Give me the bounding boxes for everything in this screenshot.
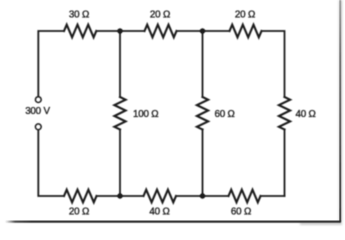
- wire top-left segment: [38, 31, 64, 96]
- wire top between R1 and node A: [96, 30, 144, 32]
- wire bottom-left segment: [38, 130, 64, 196]
- wire top-right corner down: [262, 31, 285, 97]
- resistor R6 40 ohm: [279, 97, 290, 130]
- resistor R9 60 ohm: [229, 190, 261, 203]
- wire bottom-right corner: [261, 195, 285, 197]
- wire bottom between R8 and node D: [176, 195, 229, 197]
- source terminal bottom: [35, 124, 41, 130]
- resistor R2 20 ohm: [145, 25, 177, 38]
- svg-text:20 Ω: 20 Ω: [150, 10, 170, 21]
- wire node A lower: [119, 130, 121, 197]
- node D junction dot: [200, 193, 205, 198]
- node A junction dot: [117, 28, 122, 33]
- wire top between R2 and node B: [177, 30, 230, 32]
- resistor R5 60 ohm: [197, 97, 208, 130]
- svg-text:20 Ω: 20 Ω: [69, 206, 89, 217]
- resistor R8 40 ohm: [144, 190, 177, 203]
- wire bottom between R7 and node C: [97, 195, 144, 197]
- svg-text:60 Ω: 60 Ω: [215, 109, 235, 120]
- resistor R1 30 ohm: [64, 25, 96, 38]
- svg-text:20 Ω: 20 Ω: [235, 10, 255, 21]
- resistor R7 20 ohm: [64, 190, 97, 203]
- svg-text:40 Ω: 40 Ω: [296, 109, 316, 120]
- resistor R4 100 ohm: [114, 97, 125, 130]
- wire node B lower: [202, 130, 204, 197]
- svg-text:300 V: 300 V: [25, 106, 50, 117]
- svg-text:40 Ω: 40 Ω: [149, 206, 169, 217]
- node B junction dot: [200, 28, 205, 33]
- resistor R3 20 ohm: [230, 25, 262, 38]
- svg-text:60 Ω: 60 Ω: [231, 206, 251, 217]
- source terminal top: [35, 97, 41, 103]
- wire node B down: [202, 31, 204, 97]
- svg-text:30 Ω: 30 Ω: [69, 10, 89, 21]
- node C junction dot: [117, 193, 122, 198]
- wire right rail lower: [284, 130, 286, 197]
- svg-text:100 Ω: 100 Ω: [133, 109, 158, 120]
- wire node A down: [119, 31, 121, 97]
